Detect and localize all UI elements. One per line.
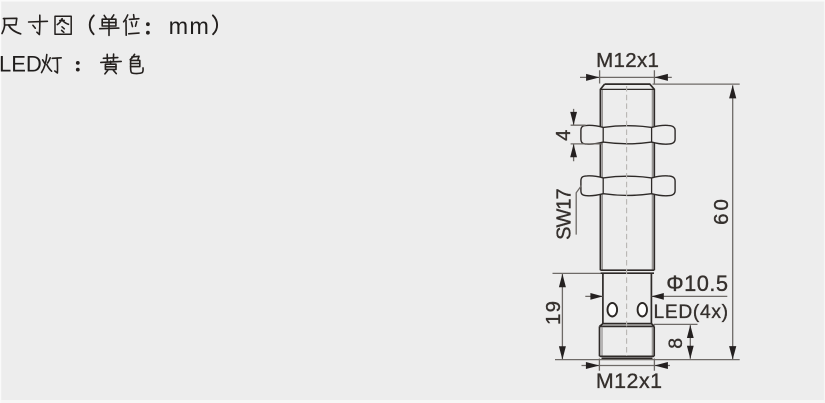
top M12x1 dimension line bbox=[580, 76, 672, 78]
bottom M12x1 dimension line bbox=[582, 365, 671, 367]
title text line 1: CJK hand-drawn glyphs bbox=[2, 15, 217, 36]
dim 60 extension line top bbox=[653, 83, 740, 85]
char 图 bbox=[55, 16, 71, 34]
bottom long extension line bbox=[555, 359, 740, 361]
fullwidth colon line1 bbox=[146, 22, 150, 34]
hex nut 1 bbox=[581, 125, 675, 144]
dim 60 arrows bbox=[729, 85, 736, 98]
barrel thread inner lines bbox=[601, 90, 603, 270]
top M12x1 arrows bbox=[586, 74, 600, 81]
svg-text:M12x1: M12x1 bbox=[596, 49, 659, 72]
dim 4 arrows bbox=[570, 112, 577, 125]
dim 4 extension lines bbox=[571, 125, 603, 144]
phi 10.5 arrows bbox=[590, 293, 602, 300]
connector body bbox=[600, 326, 655, 356]
bottom M12x1 arrows bbox=[586, 362, 600, 369]
fullwidth colon line2 bbox=[76, 61, 80, 72]
svg-text:mm: mm bbox=[169, 13, 211, 39]
svg-text:19: 19 bbox=[542, 300, 565, 325]
svg-text:Φ10.5: Φ10.5 bbox=[666, 271, 728, 296]
fullwidth right paren bbox=[213, 15, 217, 34]
svg-text:8: 8 bbox=[665, 338, 687, 349]
hex nut 2 bbox=[581, 176, 675, 196]
LED section bbox=[603, 273, 652, 323]
dim 60 line bbox=[732, 85, 734, 359]
char 单 bbox=[100, 15, 119, 36]
char 寸 bbox=[29, 15, 48, 34]
svg-text:4: 4 bbox=[553, 130, 575, 141]
LED window circles bbox=[608, 303, 648, 317]
dimension texts bbox=[542, 49, 733, 393]
char 色 bbox=[130, 54, 143, 73]
centerline bbox=[626, 86, 628, 356]
phi 10.5 dimension line bbox=[585, 295, 727, 297]
dim 8 extension line bbox=[654, 323, 698, 325]
svg-text:LED(4x): LED(4x) bbox=[654, 302, 729, 323]
arrowheads bbox=[559, 74, 736, 369]
top M12x1 extension lines bbox=[600, 70, 655, 83]
char 尺 bbox=[2, 18, 21, 34]
connector top step bbox=[600, 324, 655, 327]
dim 8 arrows bbox=[687, 325, 694, 338]
dim 19 arrows bbox=[559, 274, 566, 287]
bottom M12x1 extension lines bbox=[599, 359, 654, 371]
char 灯 bbox=[42, 55, 62, 74]
svg-text:60: 60 bbox=[710, 196, 733, 225]
dim 19 line bbox=[561, 274, 563, 359]
svg-text:M12x1: M12x1 bbox=[596, 369, 663, 393]
svg-text:SW17: SW17 bbox=[554, 188, 576, 239]
dim 8 line bbox=[689, 325, 691, 359]
sensor barrel outline bbox=[600, 84, 655, 358]
char 黄 bbox=[101, 54, 121, 74]
connector bottom bbox=[600, 356, 655, 358]
svg-text:LED: LED bbox=[0, 52, 42, 77]
dim 19 extension line bbox=[553, 272, 601, 274]
char 位 bbox=[124, 15, 139, 36]
fullwidth left paren bbox=[90, 15, 94, 34]
dim 4 arrow tails bbox=[573, 109, 575, 161]
SW17 leader bbox=[576, 186, 581, 235]
barrel bottom step bbox=[600, 270, 654, 273]
